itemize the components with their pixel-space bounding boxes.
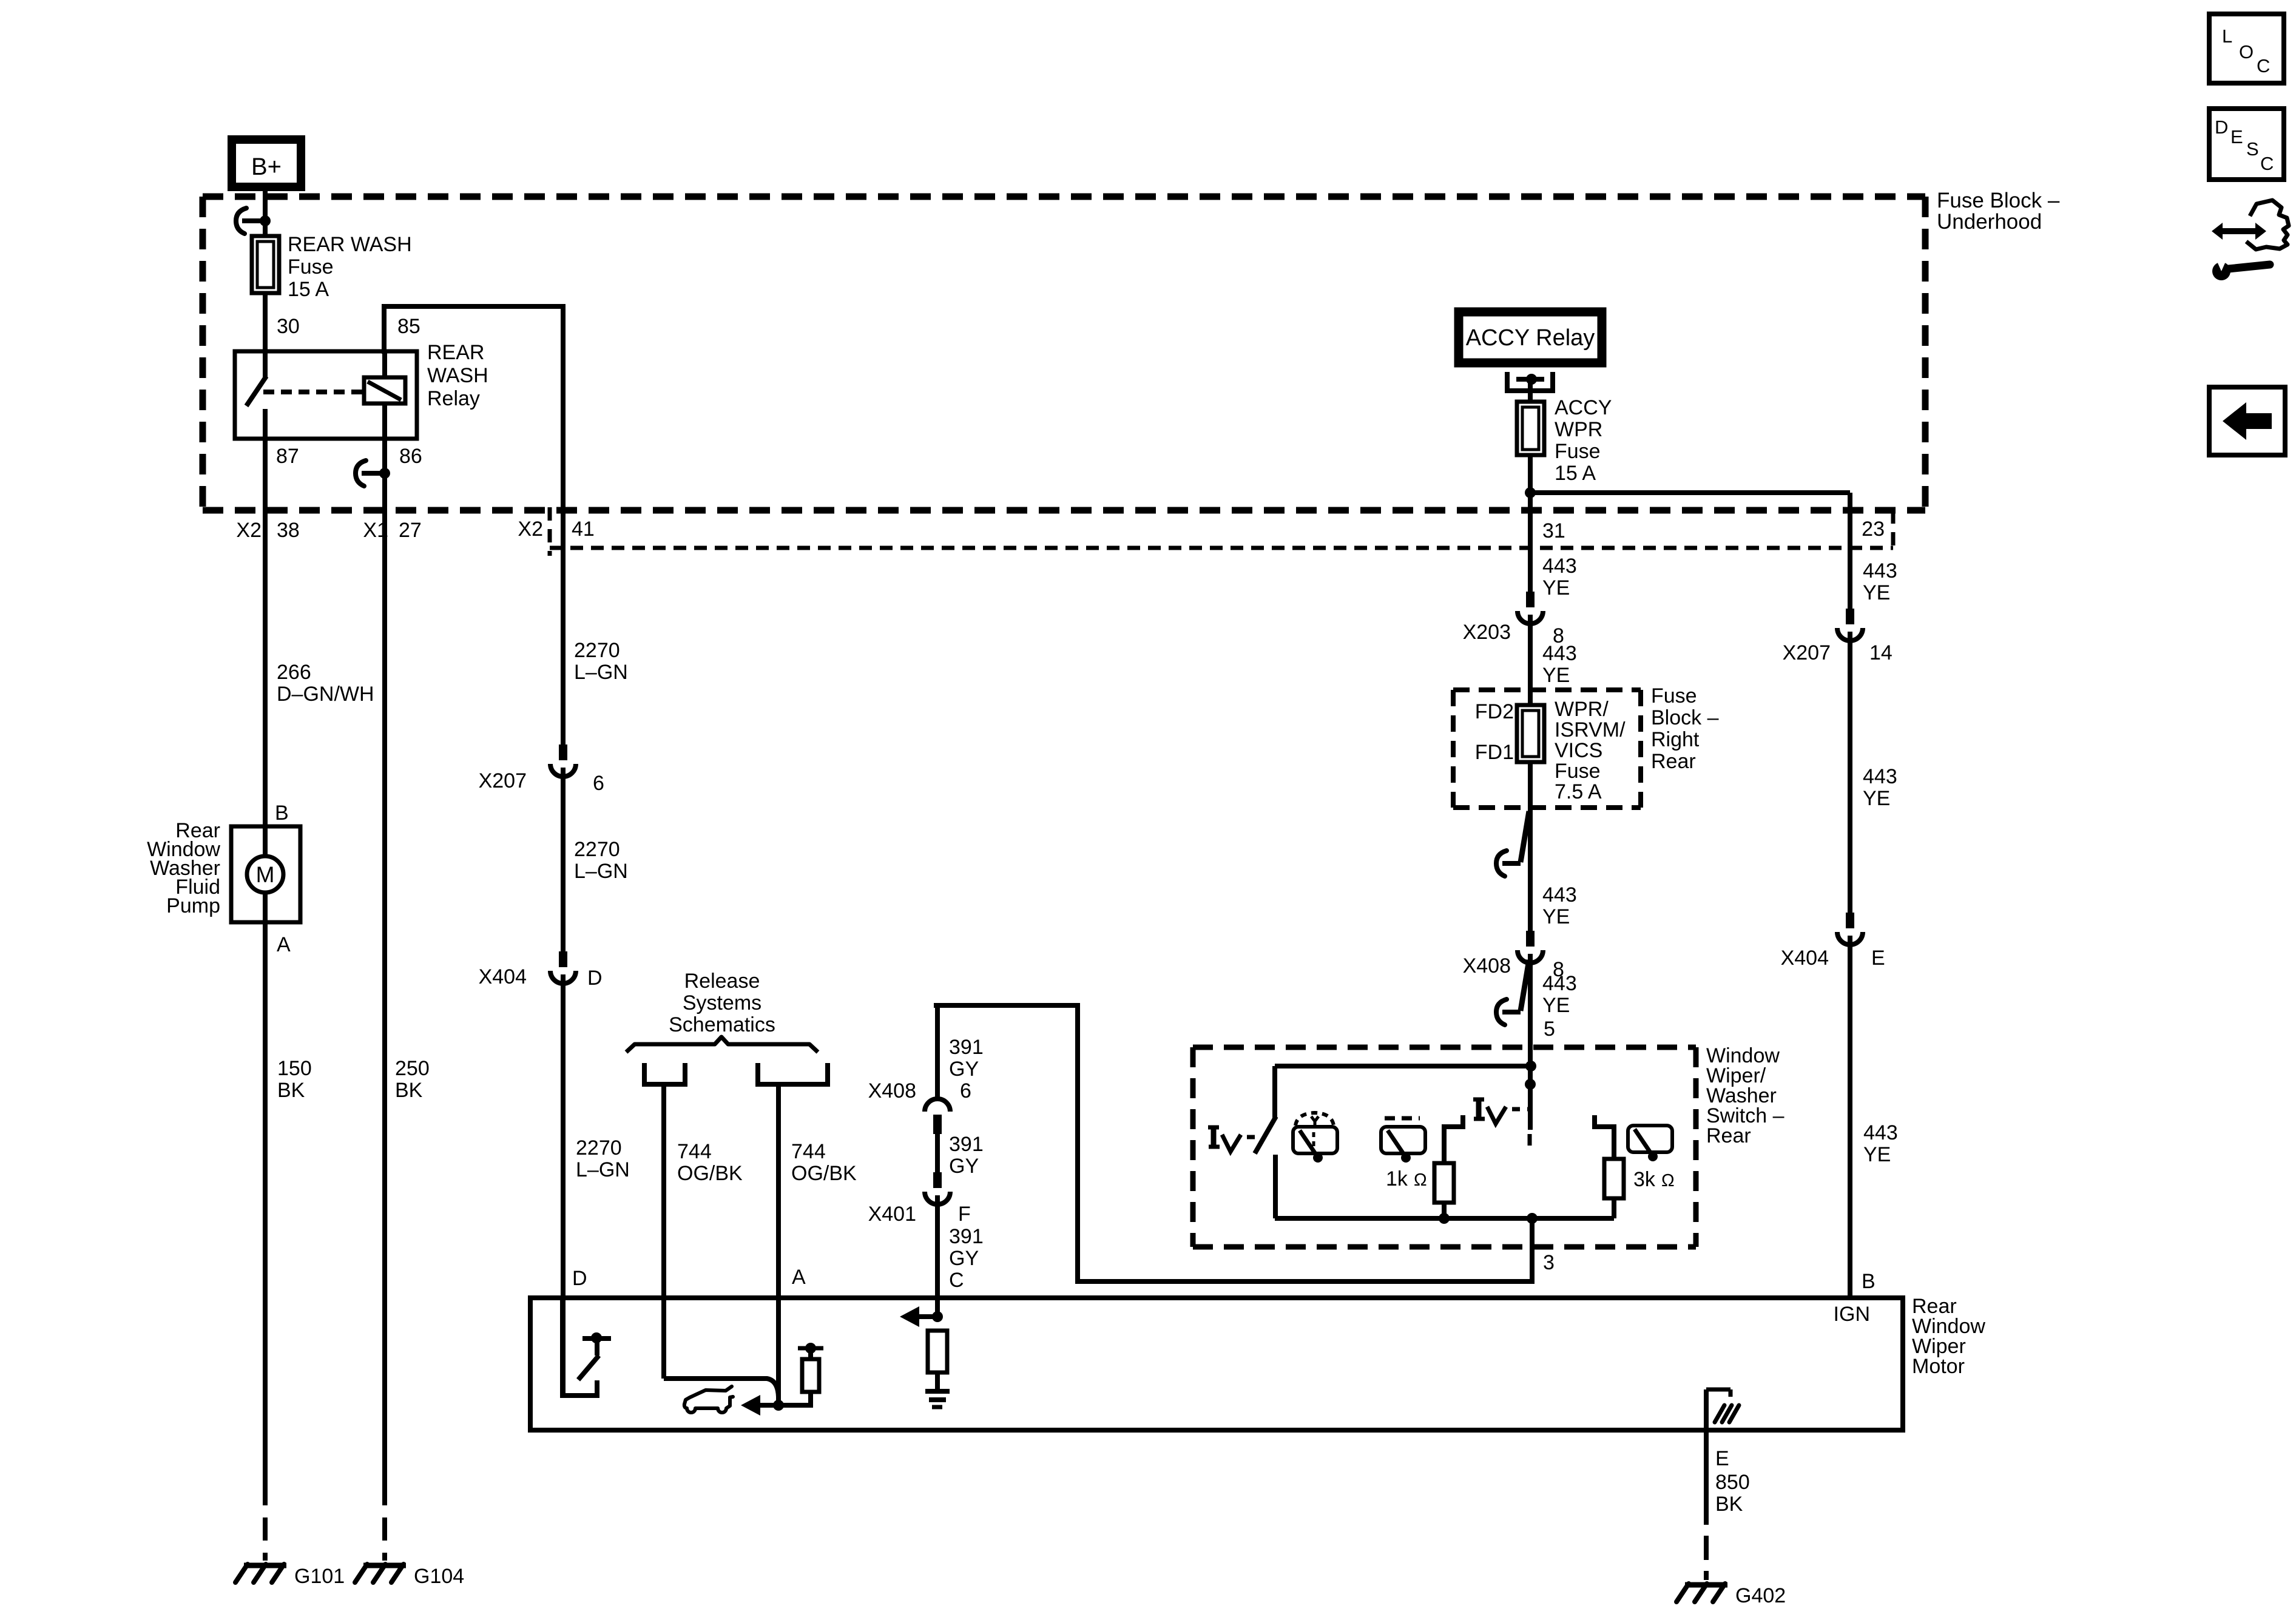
svg-text:D: D	[587, 967, 603, 990]
svg-text:VICS: VICS	[1555, 739, 1602, 762]
svg-text:23: 23	[1862, 518, 1885, 541]
svg-text:GY: GY	[949, 1058, 979, 1081]
svg-text:250: 250	[395, 1057, 430, 1080]
svg-text:X408: X408	[1463, 954, 1511, 977]
svg-text:YE: YE	[1863, 787, 1890, 810]
svg-text:OG/BK: OG/BK	[791, 1162, 857, 1185]
svg-text:L–GN: L–GN	[576, 1158, 630, 1181]
svg-text:Fuse Block –: Fuse Block –	[1937, 189, 2060, 212]
svg-text:850: 850	[1715, 1471, 1750, 1494]
svg-text:X401: X401	[868, 1203, 916, 1226]
svg-text:41: 41	[572, 518, 595, 541]
svg-text:BK: BK	[277, 1079, 305, 1102]
svg-text:Systems: Systems	[683, 991, 761, 1014]
svg-text:X2: X2	[518, 518, 543, 541]
svg-text:X2: X2	[236, 519, 262, 542]
svg-text:D–GN/WH: D–GN/WH	[277, 683, 374, 706]
svg-text:6: 6	[593, 772, 604, 795]
svg-text:744: 744	[677, 1140, 712, 1163]
svg-text:L–GN: L–GN	[574, 860, 628, 883]
svg-text:IGN: IGN	[1834, 1303, 1870, 1326]
svg-text:X408: X408	[868, 1079, 916, 1102]
svg-text:14: 14	[1869, 641, 1893, 664]
svg-text:2270: 2270	[576, 1136, 622, 1160]
svg-text:Pump: Pump	[166, 894, 220, 917]
svg-text:443: 443	[1863, 559, 1897, 582]
svg-text:YE: YE	[1542, 576, 1570, 599]
svg-text:YE: YE	[1863, 1143, 1891, 1166]
svg-text:3k: 3k	[1633, 1168, 1656, 1191]
svg-text:Rear: Rear	[1706, 1124, 1751, 1147]
svg-text:5: 5	[1544, 1018, 1555, 1041]
svg-text:X404: X404	[479, 965, 527, 988]
svg-text:Motor: Motor	[1912, 1355, 1965, 1378]
svg-text:C: C	[2257, 55, 2270, 76]
svg-text:Block –: Block –	[1651, 706, 1719, 729]
svg-text:38: 38	[277, 519, 300, 542]
svg-text:E: E	[1871, 947, 1885, 970]
svg-text:E: E	[1715, 1447, 1729, 1470]
svg-text:X207: X207	[479, 769, 527, 792]
svg-text:YE: YE	[1863, 581, 1890, 604]
svg-text:FD1: FD1	[1475, 741, 1514, 764]
svg-text:Fuse: Fuse	[1651, 684, 1697, 707]
svg-text:Fuse: Fuse	[1555, 440, 1601, 463]
svg-text:Rear: Rear	[1651, 750, 1696, 773]
svg-text:2270: 2270	[574, 639, 620, 662]
svg-text:2270: 2270	[574, 838, 620, 861]
svg-text:B: B	[275, 802, 289, 825]
svg-text:Ω: Ω	[1661, 1171, 1675, 1190]
svg-text:Ω: Ω	[1414, 1170, 1427, 1190]
svg-text:BK: BK	[1715, 1493, 1743, 1516]
svg-text:F: F	[958, 1203, 971, 1226]
svg-text:B+: B+	[251, 154, 282, 180]
svg-text:G402: G402	[1735, 1584, 1786, 1607]
svg-text:X207: X207	[1783, 641, 1831, 664]
svg-text:S: S	[2246, 138, 2259, 160]
svg-text:C: C	[949, 1269, 964, 1292]
svg-text:YE: YE	[1542, 905, 1570, 928]
svg-text:L: L	[2222, 25, 2232, 47]
svg-text:85: 85	[397, 315, 420, 338]
svg-text:27: 27	[399, 519, 422, 542]
svg-text:ACCY: ACCY	[1555, 396, 1612, 419]
svg-text:X1: X1	[363, 519, 388, 542]
svg-text:443: 443	[1542, 972, 1577, 995]
svg-text:Schematics: Schematics	[669, 1013, 775, 1036]
svg-text:FD2: FD2	[1475, 700, 1514, 723]
svg-text:O: O	[2239, 41, 2254, 62]
svg-text:X203: X203	[1463, 621, 1511, 644]
svg-text:M: M	[256, 862, 275, 887]
svg-text:7.5 A: 7.5 A	[1555, 780, 1602, 803]
svg-text:Relay: Relay	[427, 387, 480, 410]
svg-text:GY: GY	[949, 1155, 979, 1178]
svg-text:D: D	[2215, 116, 2228, 138]
svg-text:744: 744	[791, 1140, 826, 1163]
svg-text:391: 391	[949, 1133, 984, 1156]
svg-text:G104: G104	[414, 1565, 464, 1588]
svg-text:15 A: 15 A	[288, 278, 329, 301]
svg-text:B: B	[1862, 1270, 1876, 1293]
svg-text:Underhood: Underhood	[1937, 210, 2042, 234]
svg-text:WPR/: WPR/	[1555, 698, 1609, 721]
svg-text:OG/BK: OG/BK	[677, 1162, 743, 1185]
svg-text:YE: YE	[1542, 994, 1570, 1017]
svg-text:15 A: 15 A	[1555, 462, 1596, 485]
svg-text:86: 86	[399, 445, 422, 468]
svg-text:3: 3	[1543, 1251, 1555, 1274]
svg-text:WASH: WASH	[427, 364, 488, 387]
svg-text:D: D	[572, 1267, 587, 1290]
svg-text:Fuse: Fuse	[1555, 760, 1601, 783]
svg-text:L–GN: L–GN	[574, 661, 628, 684]
svg-text:31: 31	[1542, 519, 1565, 542]
svg-text:443: 443	[1863, 765, 1897, 788]
svg-text:443: 443	[1542, 883, 1577, 906]
svg-text:REAR: REAR	[427, 341, 484, 364]
svg-text:266: 266	[277, 661, 311, 684]
svg-text:GY: GY	[949, 1247, 979, 1270]
svg-text:ACCY Relay: ACCY Relay	[1466, 325, 1595, 351]
svg-text:150: 150	[277, 1057, 312, 1080]
svg-text:ISRVM/: ISRVM/	[1555, 718, 1626, 741]
svg-text:YE: YE	[1542, 664, 1570, 687]
svg-text:Release: Release	[684, 970, 760, 993]
svg-text:443: 443	[1542, 642, 1577, 665]
svg-text:87: 87	[276, 445, 299, 468]
svg-text:X404: X404	[1781, 947, 1829, 970]
svg-text:6: 6	[960, 1079, 971, 1102]
svg-text:C: C	[2260, 153, 2274, 174]
svg-text:1k: 1k	[1386, 1167, 1408, 1190]
svg-text:391: 391	[949, 1036, 984, 1059]
svg-text:A: A	[277, 933, 291, 956]
svg-text:Right: Right	[1651, 728, 1700, 751]
svg-text:G101: G101	[294, 1565, 345, 1588]
svg-text:443: 443	[1863, 1121, 1898, 1144]
svg-text:WPR: WPR	[1555, 418, 1602, 441]
svg-text:443: 443	[1542, 555, 1577, 578]
svg-text:30: 30	[277, 315, 300, 338]
svg-text:REAR WASH: REAR WASH	[288, 233, 412, 256]
svg-text:A: A	[792, 1266, 806, 1289]
svg-text:391: 391	[949, 1225, 984, 1248]
svg-text:E: E	[2230, 126, 2243, 147]
svg-text:BK: BK	[395, 1079, 423, 1102]
svg-text:Fuse: Fuse	[288, 255, 334, 279]
